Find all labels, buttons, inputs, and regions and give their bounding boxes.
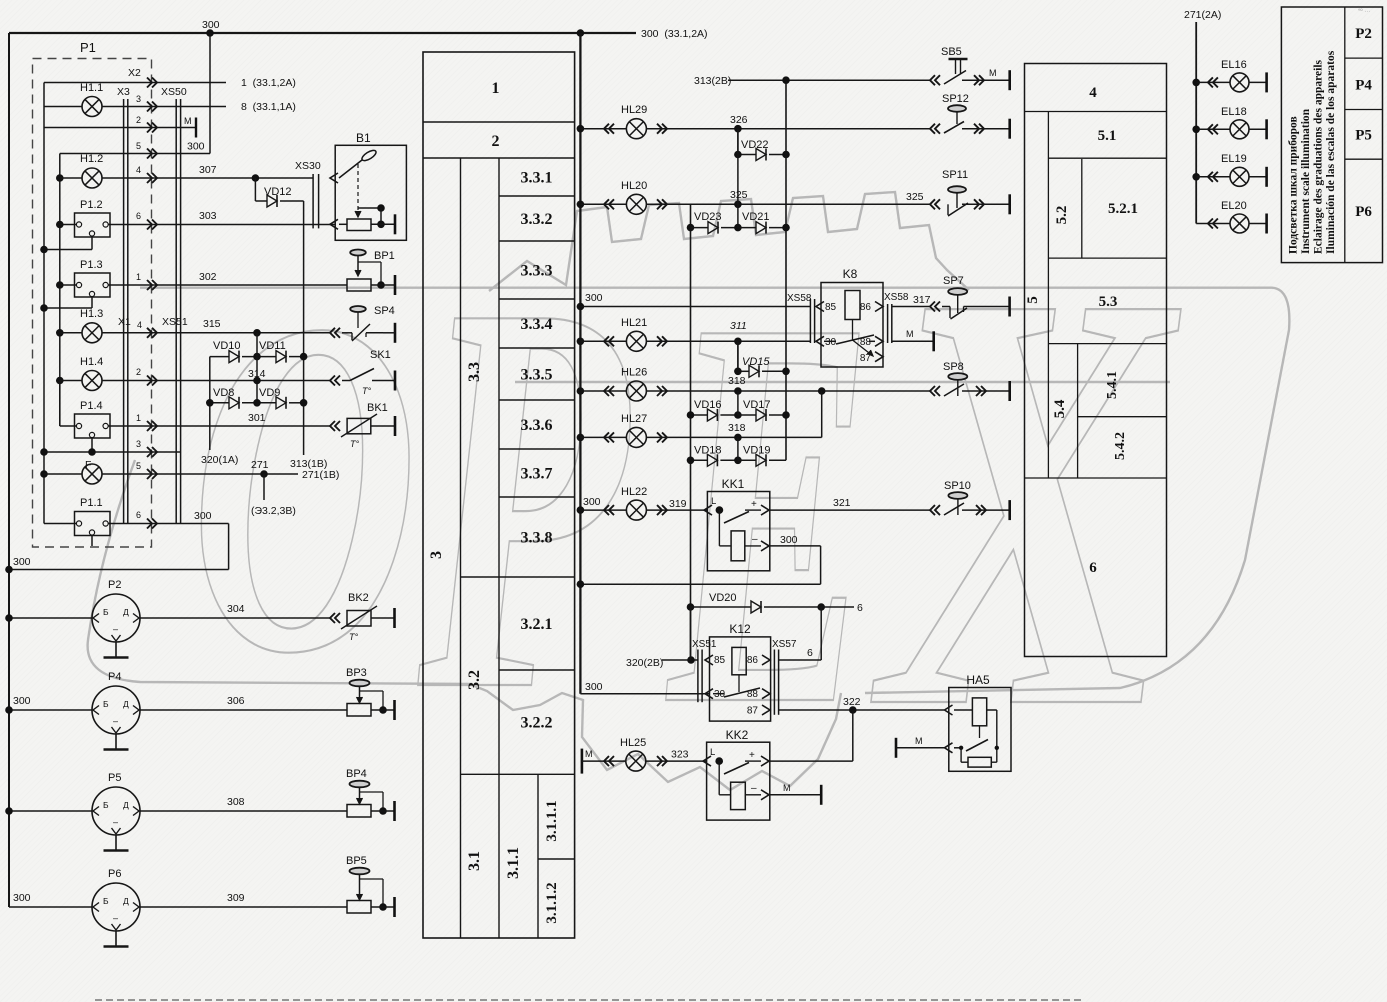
svg-text:SB5: SB5 <box>941 46 962 58</box>
wire 306 row <box>140 695 347 710</box>
svg-text:300: 300 <box>585 681 603 693</box>
svg-text:5.4.2: 5.4.2 <box>1113 432 1128 460</box>
svg-text:EL19: EL19 <box>1221 153 1247 165</box>
svg-text:L: L <box>711 496 716 507</box>
lamp HL22 <box>621 486 647 520</box>
svg-text:SP10: SP10 <box>944 480 971 492</box>
relay P1.1 <box>75 497 111 536</box>
svg-text:P4: P4 <box>1355 78 1372 94</box>
B1 pin bottom <box>330 219 347 229</box>
svg-text:3.1.1: 3.1.1 <box>505 847 522 879</box>
svg-text:VD22: VD22 <box>741 139 769 151</box>
wire 315 row <box>56 318 330 337</box>
svg-text:5: 5 <box>1025 296 1041 304</box>
svg-text:P5: P5 <box>1355 128 1372 144</box>
relay K12 <box>692 622 797 721</box>
wire 313(1B) vertical <box>290 201 327 470</box>
svg-text:P2: P2 <box>108 579 121 591</box>
wire P2 row left <box>5 614 92 622</box>
svg-text:300 (33.1,2А): 300 (33.1,2А) <box>641 28 708 40</box>
thermal switch SK1 <box>330 349 395 396</box>
svg-text:Iluminación de las escalas de: Iluminación de las escalas de los aparat… <box>1325 50 1337 254</box>
svg-text:EL18: EL18 <box>1221 106 1247 118</box>
svg-text:P5: P5 <box>108 772 121 784</box>
svg-text:SP12: SP12 <box>942 93 969 105</box>
svg-text:F: F <box>85 459 91 471</box>
wire 313(2B) vertical <box>785 80 787 460</box>
svg-text:325: 325 <box>906 191 924 203</box>
svg-text:SP11: SP11 <box>942 169 968 181</box>
svg-text:3.3.8: 3.3.8 <box>521 530 553 547</box>
svg-text:326: 326 <box>730 114 748 126</box>
svg-text:302: 302 <box>199 271 217 283</box>
svg-text:BP3: BP3 <box>346 667 367 679</box>
wire HL29 row <box>577 114 1010 134</box>
svg-text:VD16: VD16 <box>694 399 722 411</box>
svg-text:5: 5 <box>136 461 141 471</box>
diode VD11 <box>242 340 307 363</box>
svg-text:86: 86 <box>747 655 759 666</box>
wire 307 row <box>56 164 313 182</box>
wire 271(2A) feed <box>1184 9 1221 224</box>
svg-text:P1.3: P1.3 <box>80 259 103 271</box>
svg-text:–: – <box>751 783 757 794</box>
connector X3 <box>117 86 130 524</box>
wire 301 row <box>60 381 330 427</box>
wire pin2 row <box>44 115 196 128</box>
pressure sender BP3 <box>346 667 395 720</box>
svg-text:M: M <box>915 736 923 746</box>
svg-text:4: 4 <box>137 320 142 330</box>
svg-text:6: 6 <box>136 211 141 221</box>
B1 lever <box>339 148 378 217</box>
svg-text:VD8: VD8 <box>213 387 234 399</box>
instrument cluster block 3 <box>423 52 575 938</box>
svg-text:3.3.6: 3.3.6 <box>521 417 553 434</box>
svg-text:VD12: VD12 <box>264 186 292 198</box>
svg-text:271(2А): 271(2А) <box>1184 9 1221 21</box>
svg-text:Д: Д <box>123 699 129 709</box>
svg-text:°º ···: °º ··· <box>1358 8 1370 15</box>
watermark logo <box>88 167 1290 1000</box>
svg-text:Подсветка шкал приборов: Подсветка шкал приборов <box>1288 116 1300 254</box>
wire left border <box>8 33 10 907</box>
lamp HL27 <box>621 413 647 447</box>
wire 318 vertical a <box>737 391 739 415</box>
diode VD8 <box>206 387 239 409</box>
lamp F <box>82 459 102 484</box>
svg-text:300: 300 <box>583 496 601 508</box>
svg-text:319: 319 <box>669 498 687 510</box>
svg-text:30: 30 <box>714 689 726 700</box>
svg-text:BP1: BP1 <box>374 250 395 262</box>
wire KK1 minus return <box>577 534 821 588</box>
svg-text:VD20: VD20 <box>709 592 737 604</box>
svg-text:HA5: HA5 <box>966 673 990 687</box>
svg-text:313(2В): 313(2В) <box>694 75 731 87</box>
svg-text:318: 318 <box>728 375 746 387</box>
wire VD15 vertical <box>734 341 742 375</box>
svg-text:3.3.4: 3.3.4 <box>521 316 553 333</box>
svg-text:6: 6 <box>1089 560 1097 576</box>
wire 313(2B) row <box>694 75 1010 87</box>
wire VD bank vertical 320 <box>201 357 238 466</box>
svg-text:–: – <box>752 534 758 545</box>
svg-text:VD17: VD17 <box>743 399 771 411</box>
wire HL26 row <box>577 375 1010 396</box>
svg-text:–: – <box>113 913 118 923</box>
svg-text:VD9: VD9 <box>259 387 280 399</box>
svg-text:325: 325 <box>730 189 748 201</box>
diode VD10 <box>210 340 241 363</box>
speed gauge P5 <box>92 772 140 851</box>
push button SB5 <box>930 46 1010 90</box>
svg-text:Т°: Т° <box>349 632 358 642</box>
svg-text:M: M <box>585 749 593 759</box>
wire bus C <box>59 154 61 427</box>
svg-text:5.4.1: 5.4.1 <box>1105 371 1120 399</box>
wire P4 row left <box>5 695 92 714</box>
svg-text:P1.1: P1.1 <box>80 497 103 509</box>
svg-text:85: 85 <box>714 655 726 666</box>
svg-text:321: 321 <box>833 497 851 509</box>
legend table instrument illumination <box>1281 7 1382 263</box>
svg-text:XS51: XS51 <box>162 316 188 328</box>
svg-text:3.3.7: 3.3.7 <box>521 466 553 483</box>
svg-text:SP8: SP8 <box>943 361 964 373</box>
wire pin1 X2 row <box>44 82 226 84</box>
speed gauge P2 <box>92 579 140 658</box>
svg-text:271(1В): 271(1В) <box>302 469 339 481</box>
svg-text:BP4: BP4 <box>346 768 367 780</box>
wire 320(2B) stub <box>626 607 698 669</box>
wire KK2 minus M <box>770 783 821 805</box>
lamp HL29 <box>621 104 647 139</box>
wire pin5 300 row <box>60 33 210 154</box>
wire label 8 (33.1,1A) <box>241 101 296 113</box>
connector XS30 <box>295 160 321 228</box>
svg-text:SP4: SP4 <box>374 305 395 317</box>
svg-text:X3: X3 <box>117 86 130 98</box>
svg-text:Eclairage des graduations des: Eclairage des graduations des appareils <box>1313 59 1325 254</box>
svg-text:X1: X1 <box>118 316 131 328</box>
wire HL27 row <box>577 391 822 442</box>
svg-text:2: 2 <box>136 367 141 377</box>
diode VD9 <box>242 387 307 409</box>
svg-text:271: 271 <box>251 459 269 471</box>
svg-text:1: 1 <box>136 272 141 282</box>
svg-text:304: 304 <box>227 603 245 615</box>
pressure switch SP4 <box>330 305 395 343</box>
svg-text:308: 308 <box>227 796 245 808</box>
svg-text:5.2.1: 5.2.1 <box>1108 201 1138 217</box>
diode VD20 <box>687 592 863 614</box>
svg-text:B1: B1 <box>356 131 371 145</box>
speed gauge P4 <box>92 671 140 750</box>
thermistor BK1 <box>330 402 395 449</box>
svg-text:86: 86 <box>860 302 872 313</box>
svg-text:4: 4 <box>1089 85 1097 101</box>
pressure switch SP11 <box>906 169 1010 216</box>
svg-text:VD23: VD23 <box>694 211 722 223</box>
svg-text:3.1.1.1: 3.1.1.1 <box>544 800 560 841</box>
svg-text:Instrument scale illumination: Instrument scale illumination <box>1300 108 1312 254</box>
relay P1.3 <box>75 259 111 297</box>
wire HL20 row <box>577 189 1010 209</box>
svg-text:XS58: XS58 <box>787 293 812 304</box>
wire 326 vertical <box>737 129 739 228</box>
lamp H1.2 <box>80 153 103 188</box>
svg-text:VD21: VD21 <box>742 211 770 223</box>
svg-text:XS57: XS57 <box>772 639 797 650</box>
wire 271 row <box>40 459 298 478</box>
svg-text:Б: Б <box>103 699 109 709</box>
svg-text:X2: X2 <box>128 67 141 79</box>
svg-text:SK1: SK1 <box>370 349 391 361</box>
svg-text:30: 30 <box>825 337 837 348</box>
svg-text:Б: Б <box>103 607 109 617</box>
wire 318 vertical b <box>737 437 739 460</box>
wire 322 row <box>779 696 944 714</box>
wire P1.3 bottom link <box>40 296 92 312</box>
diode VD18 <box>687 445 742 467</box>
svg-text:(Э3.2,3В): (Э3.2,3В) <box>251 505 296 517</box>
svg-text:BP5: BP5 <box>346 855 367 867</box>
wire KK2 plus to 322 <box>770 710 853 761</box>
thermistor BK2 <box>330 592 395 642</box>
wire P1.4 bottom link <box>88 437 96 456</box>
svg-text:300: 300 <box>187 141 205 153</box>
svg-text:300: 300 <box>13 556 31 568</box>
wire 303 row <box>56 210 335 228</box>
wire label 1 (33.1,2A) <box>241 77 296 89</box>
node 300 top bus <box>9 19 636 37</box>
svg-text:300: 300 <box>202 19 220 31</box>
wire H1.1 row <box>44 94 226 107</box>
svg-text:3.2: 3.2 <box>466 670 483 690</box>
svg-text:M: M <box>783 783 791 793</box>
svg-text:HL22: HL22 <box>621 486 647 498</box>
svg-text:H1.1: H1.1 <box>80 82 103 94</box>
wire bus A <box>43 83 45 524</box>
svg-text:322: 322 <box>843 696 861 708</box>
wire 314 row <box>56 367 330 384</box>
svg-text:HL29: HL29 <box>621 104 647 116</box>
svg-text:3: 3 <box>428 551 445 559</box>
svg-text:VD15: VD15 <box>742 356 770 368</box>
svg-text:85: 85 <box>825 302 837 313</box>
svg-text:Д: Д <box>123 607 129 617</box>
svg-text:VD11: VD11 <box>259 340 286 352</box>
svg-text:–: – <box>113 716 118 726</box>
svg-text:VD19: VD19 <box>743 445 771 457</box>
svg-text:307: 307 <box>199 164 217 176</box>
svg-text:3.1: 3.1 <box>466 851 483 871</box>
svg-text:P1: P1 <box>80 40 96 55</box>
lamp HL25 <box>620 737 646 771</box>
lamp EL18 <box>1192 106 1266 139</box>
svg-text:5: 5 <box>136 141 141 151</box>
diode VD15 <box>738 341 790 377</box>
B1 pin top <box>330 173 338 183</box>
svg-text:P4: P4 <box>108 671 121 683</box>
B1 potentiometer <box>347 204 395 234</box>
wire label 271(1B) <box>302 469 339 481</box>
wire 317 row <box>892 294 931 307</box>
svg-text:Т°: Т° <box>362 386 371 396</box>
lamp H1.1 <box>80 82 103 117</box>
diode VD12 <box>255 178 303 207</box>
svg-text:K12: K12 <box>729 622 751 636</box>
wire 304 row <box>140 603 330 618</box>
svg-text:3.3: 3.3 <box>466 362 483 382</box>
wire K12 pin86 to 6 <box>779 607 822 660</box>
svg-text:VD18: VD18 <box>694 445 722 457</box>
svg-text:M: M <box>184 116 192 126</box>
svg-text:300: 300 <box>780 534 798 546</box>
diode VD16 <box>687 399 742 421</box>
svg-text:EL20: EL20 <box>1221 200 1247 212</box>
svg-text:301: 301 <box>248 412 266 424</box>
svg-text:Т°: Т° <box>350 439 359 449</box>
wire HL22 row <box>577 496 708 515</box>
wire 300 return row <box>5 510 228 573</box>
lamp HL26 <box>621 367 647 402</box>
indicator block 4-5-6 <box>1025 64 1167 657</box>
svg-text:315: 315 <box>203 318 221 330</box>
lamp H1.4 <box>80 356 103 391</box>
svg-text:2: 2 <box>136 115 141 125</box>
svg-text:323: 323 <box>671 749 689 761</box>
svg-text:320(1А): 320(1А) <box>201 454 238 466</box>
lamp HL21 <box>621 317 647 351</box>
wire main vertical bus <box>579 33 581 694</box>
lamp EL20 <box>1196 200 1266 234</box>
diode VD17 <box>738 399 790 421</box>
svg-text:XS50: XS50 <box>161 86 187 98</box>
svg-text:6: 6 <box>807 647 813 659</box>
svg-text:3: 3 <box>136 439 141 449</box>
svg-text:H1.3: H1.3 <box>80 308 103 320</box>
svg-text:XS58: XS58 <box>884 292 909 303</box>
wire K8 pin88 M row <box>892 329 934 351</box>
relay P1.4 <box>75 400 111 438</box>
svg-text:3.2.2: 3.2.2 <box>521 715 553 732</box>
wire HA5 M stub <box>896 736 945 758</box>
svg-text:BK1: BK1 <box>367 402 388 414</box>
pressure switch SP12 <box>930 93 1010 139</box>
connector XS50 <box>161 86 187 524</box>
svg-text:H1.2: H1.2 <box>80 153 103 165</box>
svg-text:320(2В): 320(2В) <box>626 657 663 669</box>
svg-text:M: M <box>989 68 997 78</box>
wire node 314 vertical <box>248 333 266 403</box>
svg-text:HL25: HL25 <box>620 737 646 749</box>
wire 271 stub down <box>251 474 296 517</box>
svg-text:–: – <box>113 817 118 827</box>
wire P6 row left <box>9 892 92 907</box>
lamp HL20 <box>621 180 647 214</box>
sensor unit B1 <box>335 131 406 240</box>
wire P1.2 bottom link <box>40 236 92 253</box>
svg-text:P1.2: P1.2 <box>80 199 103 211</box>
wire K12 pin30 row <box>580 681 709 694</box>
wire 309 row <box>140 892 347 907</box>
svg-text:P6: P6 <box>108 868 121 880</box>
wire label 300 (33.1,2A) <box>641 28 708 40</box>
svg-text:Е: Е <box>663 202 873 822</box>
svg-text:300: 300 <box>13 892 31 904</box>
svg-text:3.3.2: 3.3.2 <box>521 211 553 228</box>
diode VD22 <box>734 129 790 161</box>
svg-text:Б: Б <box>103 896 109 906</box>
connector X2 <box>128 67 141 79</box>
ground M row2 <box>184 116 196 138</box>
svg-text:87: 87 <box>747 706 759 717</box>
wire 321 row <box>770 497 1010 510</box>
svg-text:5.1: 5.1 <box>1098 128 1117 144</box>
svg-text:5.4: 5.4 <box>1052 399 1068 418</box>
svg-text:–: – <box>113 624 118 634</box>
pressure switch SP10 <box>930 480 1010 520</box>
svg-text:HL26: HL26 <box>621 367 647 379</box>
wire 302 row <box>56 271 347 289</box>
connector X1 <box>118 316 131 328</box>
svg-text:8 (33.1,1А): 8 (33.1,1А) <box>241 101 296 113</box>
buzzer unit HA5 <box>945 673 1012 771</box>
svg-text:P6: P6 <box>1355 204 1372 220</box>
svg-text:300: 300 <box>194 510 212 522</box>
thermal relay KK1 <box>704 477 770 571</box>
svg-text:KK2: KK2 <box>726 728 749 742</box>
svg-text:KK1: KK1 <box>722 477 745 491</box>
svg-text:P1.4: P1.4 <box>80 400 103 412</box>
svg-text:306: 306 <box>227 695 245 707</box>
lamp EL19 <box>1192 153 1266 187</box>
svg-text:XS30: XS30 <box>295 160 321 172</box>
svg-text:317: 317 <box>913 294 931 306</box>
diode VD23 <box>691 211 742 234</box>
wire 308 row <box>140 796 347 811</box>
svg-text:300: 300 <box>585 292 603 304</box>
svg-text:3.3.1: 3.3.1 <box>521 170 553 187</box>
relay K8 <box>787 267 909 367</box>
lamp EL16 <box>1192 59 1266 92</box>
svg-text:K8: K8 <box>843 267 858 281</box>
wire HL25 row <box>582 749 707 774</box>
svg-text:2: 2 <box>492 133 500 150</box>
pressure switch SP7 <box>930 275 1010 319</box>
svg-text:300: 300 <box>13 695 31 707</box>
svg-text:4: 4 <box>136 165 141 175</box>
svg-text:HL21: HL21 <box>621 317 647 329</box>
diode VD19 <box>738 445 786 467</box>
relay P1.2 <box>75 199 111 237</box>
svg-text:5.2: 5.2 <box>1054 206 1070 225</box>
svg-text:Д: Д <box>123 896 129 906</box>
svg-text:318: 318 <box>728 422 746 434</box>
pressure sender BP4 <box>346 768 395 821</box>
svg-text:1: 1 <box>492 80 500 97</box>
wire 300 row K8 <box>577 292 810 310</box>
svg-text:3: 3 <box>136 94 141 104</box>
svg-text:3.2.1: 3.2.1 <box>521 616 553 633</box>
svg-text:+: + <box>751 499 757 510</box>
lamp H1.3 <box>80 308 103 343</box>
wire HL20 branch vertical <box>687 204 695 660</box>
svg-text:6: 6 <box>136 510 141 520</box>
connector XS51 <box>162 316 188 328</box>
